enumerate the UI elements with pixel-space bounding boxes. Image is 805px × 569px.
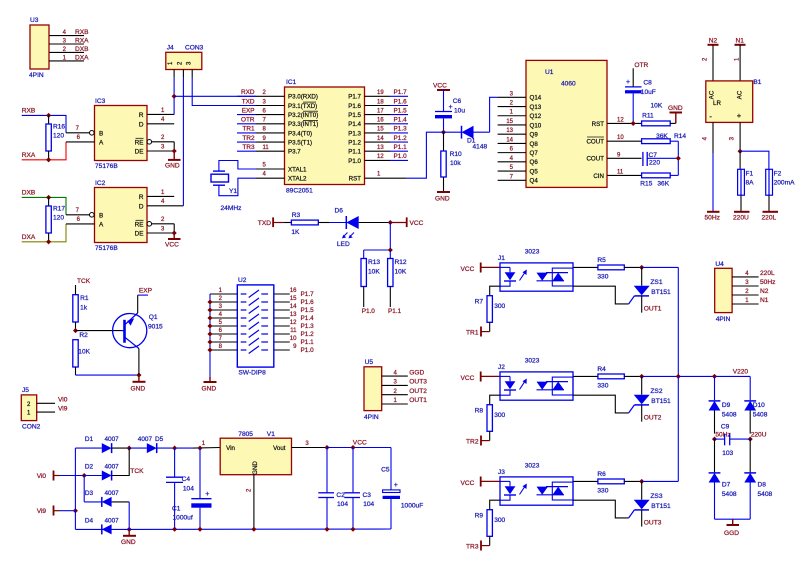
svg-text:50Hz: 50Hz (760, 279, 775, 286)
svg-text:17: 17 (377, 108, 384, 114)
junction V220/left rail (712, 374, 717, 379)
svg-text:3023: 3023 (525, 358, 540, 365)
wire IC3 RE-DE to ground (173, 142, 175, 151)
port TCK (76, 278, 91, 295)
wire DXA (22, 224, 66, 242)
svg-text:D1: D1 (85, 436, 94, 443)
svg-text:R9: R9 (475, 513, 484, 520)
svg-text:4PIN: 4PIN (364, 414, 379, 421)
svg-text:P3.7: P3.7 (288, 149, 301, 156)
fuse F1 8A (738, 151, 755, 212)
wire N1 to B1 (739, 45, 741, 81)
svg-text:50Hz: 50Hz (715, 432, 730, 439)
svg-text:Q10: Q10 (530, 122, 542, 129)
svg-text:4PIN: 4PIN (716, 316, 731, 323)
wire D2 out to D1 junction (112, 448, 130, 475)
svg-text:Q13: Q13 (530, 104, 542, 111)
svg-text:C9: C9 (721, 424, 730, 431)
junction U2 bus pin 3 (207, 307, 212, 312)
wire bridge bottom (715, 518, 751, 520)
svg-text:J3: J3 (498, 469, 505, 476)
svg-text:CON2: CON2 (22, 424, 41, 431)
wire J4 pin1 to IC3 R (173, 78, 175, 115)
svg-text:P3.3(INT1): P3.3(INT1) (288, 121, 318, 128)
svg-text:R12: R12 (395, 259, 407, 266)
svg-text:D5: D5 (155, 436, 164, 443)
svg-text:U5: U5 (365, 359, 374, 366)
svg-text:+: + (449, 104, 453, 111)
svg-text:DE: DE (135, 231, 144, 238)
svg-text:DE: DE (135, 149, 144, 156)
diode D5 4007 (129, 436, 174, 453)
junction ground rail (350, 527, 355, 532)
wire DXB (22, 197, 66, 214)
wire gate ZS2 (573, 395, 629, 413)
pin 6 P3.2(INT0) of IC1 (237, 107, 318, 119)
wire RXA (22, 142, 66, 160)
svg-text:103: 103 (722, 450, 733, 457)
svg-text:D: D (139, 203, 144, 210)
resistor R17 (46, 197, 66, 241)
wire XTAL1 to crystal (219, 161, 256, 172)
svg-text:GND: GND (202, 386, 217, 393)
capacitor C9 103 (715, 424, 751, 458)
capacitor C3 104 (344, 448, 374, 530)
svg-text:Y1: Y1 (229, 188, 237, 195)
svg-text:OUT1: OUT1 (409, 397, 427, 404)
resistor R14 36K (642, 133, 687, 144)
svg-text:ZS3: ZS3 (650, 493, 662, 500)
svg-text:R7: R7 (475, 299, 484, 306)
junction RXA-R16 (46, 157, 51, 162)
connector J4 CON3 (166, 45, 204, 78)
pin 3 of U2 with switch (210, 304, 268, 313)
svg-text:Q6: Q6 (530, 159, 539, 166)
diode D3 4007 (84, 490, 129, 507)
diode D1 4148 (444, 126, 490, 151)
svg-text:BT151: BT151 (651, 289, 671, 296)
svg-text:10: 10 (290, 336, 297, 342)
svg-text:OTR: OTR (241, 117, 255, 124)
svg-text:10K: 10K (395, 269, 407, 276)
LED D6 (330, 208, 391, 248)
svg-text:220U: 220U (751, 432, 767, 439)
pin 9 P3.5(T1) of IC1 (237, 135, 312, 147)
svg-text:8A: 8A (746, 180, 755, 187)
svg-text:D6: D6 (335, 208, 344, 215)
pin 14 Q8 of U1 (498, 137, 539, 147)
svg-text:15: 15 (377, 127, 384, 133)
svg-text:10K: 10K (78, 349, 90, 356)
svg-text:J2: J2 (498, 364, 505, 371)
svg-text:P1.0: P1.0 (362, 308, 376, 315)
svg-text:VCC: VCC (461, 266, 475, 273)
svg-text:TR1: TR1 (242, 126, 255, 133)
svg-text:R15: R15 (640, 181, 652, 188)
svg-text:P1.5: P1.5 (301, 307, 315, 314)
resistor R10 10k (441, 132, 462, 191)
svg-text:AC: AC (709, 90, 716, 99)
svg-text:R1: R1 (80, 295, 89, 302)
wire V220 row (678, 375, 750, 377)
svg-text:DXB: DXB (22, 190, 36, 197)
svg-text:5408: 5408 (722, 491, 737, 498)
svg-text:P1.6: P1.6 (394, 98, 408, 105)
svg-text:Q7: Q7 (530, 150, 539, 157)
junction emitter/ground (136, 373, 141, 378)
svg-text:R8: R8 (475, 408, 484, 415)
wire base (76, 330, 122, 332)
pin 11 of U2 (274, 328, 314, 338)
svg-text:C5: C5 (381, 467, 390, 474)
wire RXB (22, 115, 66, 132)
ground GND (Q1) (131, 375, 146, 392)
svg-text:P1.7: P1.7 (348, 94, 361, 101)
svg-text:A: A (99, 139, 104, 146)
pin 19 P1.7 of IC1 (348, 89, 408, 101)
svg-text:OUT3: OUT3 (644, 520, 662, 527)
resistor R13 10K (361, 250, 380, 307)
pin 15 P1.3 of IC1 (348, 126, 408, 138)
junction ground rail (127, 527, 132, 532)
svg-text:TR2: TR2 (466, 439, 479, 446)
resistor R6 330 (573, 471, 642, 495)
port Vi9 (37, 506, 76, 516)
svg-text:V1: V1 (267, 431, 275, 438)
junction bus/V220 row (676, 374, 681, 379)
svg-text:DXA: DXA (22, 234, 36, 241)
resistor R16 (46, 115, 66, 159)
svg-text:4007: 4007 (104, 464, 119, 471)
ground GGD (724, 519, 739, 537)
svg-text:Vin: Vin (226, 445, 235, 452)
svg-text:Q8: Q8 (530, 141, 539, 148)
junction D1/D5/TCK (127, 446, 132, 451)
resistor R7 300 (475, 286, 506, 331)
ground GND (R11) (668, 105, 683, 123)
junction VCC/RST/D1/R10 (441, 130, 446, 135)
capacitor C2 104 (318, 448, 348, 530)
pin 6 of U2 with switch (210, 328, 268, 337)
svg-text:BT151: BT151 (651, 503, 671, 510)
pin 5 of U2 with switch (210, 320, 268, 329)
pin 17 P1.5 of IC1 (348, 107, 408, 119)
svg-text:P1.6: P1.6 (348, 103, 361, 110)
svg-text:V220: V220 (733, 369, 749, 376)
svg-text:TCK: TCK (130, 468, 144, 475)
svg-text:TCK: TCK (77, 278, 91, 285)
junction U2 bus pin 4 (207, 315, 212, 320)
pin 14 P1.2 of IC1 (348, 135, 408, 147)
wire B1 minus to 50Hz (703, 122, 714, 211)
resistor R2 10K (73, 340, 91, 375)
svg-text:P1.1: P1.1 (394, 144, 408, 151)
svg-text:+: + (737, 111, 742, 120)
port VCC (row J1) (461, 263, 501, 274)
svg-text:LR: LR (713, 100, 721, 107)
power VCC (LED) (390, 217, 423, 227)
wire gate ZS3 (573, 500, 629, 518)
svg-text:Q9: Q9 (530, 132, 539, 139)
pin 7 of U2 with switch (210, 336, 268, 345)
svg-text:P1.1: P1.1 (348, 149, 361, 156)
svg-text:P1.5: P1.5 (394, 107, 408, 114)
wire emitter to ground rail (76, 374, 139, 376)
svg-text:R5: R5 (597, 257, 606, 264)
svg-text:12: 12 (377, 154, 384, 160)
wire pullup feed (389, 223, 391, 251)
wire D3 to ground rail (128, 502, 130, 530)
port TR2 (466, 436, 490, 446)
svg-text:D4: D4 (85, 518, 94, 525)
svg-text:330: 330 (597, 488, 608, 495)
svg-text:14: 14 (377, 136, 384, 142)
svg-text:B: B (99, 130, 103, 137)
diode D2 4007 (84, 464, 119, 481)
wire N2 to B1 (712, 45, 714, 81)
svg-text:C2: C2 (336, 492, 345, 499)
svg-text:13: 13 (506, 128, 513, 134)
svg-text:9015: 9015 (148, 324, 163, 331)
svg-text:GGD: GGD (409, 369, 424, 376)
svg-text:R10: R10 (450, 151, 462, 158)
svg-text:4148: 4148 (473, 144, 488, 151)
diode D9 5408 (709, 376, 737, 433)
bridge rectifier B1 LR (706, 79, 762, 122)
svg-text:AC: AC (737, 90, 744, 99)
svg-text:Vi0: Vi0 (58, 397, 68, 404)
pin 12 P1.0 of IC1 (348, 153, 408, 165)
capacitor C5 1000uF (381, 448, 423, 530)
junction fuses (738, 149, 743, 154)
junction C7 right (676, 156, 681, 161)
svg-text:A: A (99, 221, 104, 228)
svg-text:330: 330 (597, 383, 608, 390)
junction R4 out (639, 374, 644, 379)
svg-text:D9: D9 (722, 402, 731, 409)
diode D4 4007 (85, 518, 119, 535)
svg-text:R16: R16 (53, 124, 65, 131)
svg-text:C8: C8 (643, 79, 652, 86)
svg-text:R4: R4 (597, 366, 606, 373)
svg-text:50Hz: 50Hz (705, 215, 720, 222)
svg-text:BT151: BT151 (651, 398, 671, 405)
svg-text:D2: D2 (85, 464, 94, 471)
pin 16 P1.4 of IC1 (348, 117, 408, 129)
wire RST to junction (407, 132, 444, 178)
svg-text:15: 15 (506, 119, 513, 125)
junction RST/C8/R11 (631, 121, 636, 126)
svg-text:OTR: OTR (634, 62, 648, 69)
resistor R8 300 (475, 395, 506, 440)
svg-text:P1.3: P1.3 (394, 126, 408, 133)
svg-text:R: R (139, 112, 144, 119)
svg-text:120: 120 (53, 133, 64, 140)
svg-text:GND: GND (435, 196, 450, 203)
svg-text:Q5: Q5 (530, 168, 539, 175)
pin 7 Q4 of U1 (498, 174, 539, 184)
svg-text:P1.1: P1.1 (301, 339, 315, 346)
pin 9 COUT of U1 (586, 152, 641, 162)
junction U2 bus pin 6 (207, 331, 212, 336)
junction IC2 DE (172, 230, 177, 235)
svg-text:300: 300 (494, 303, 505, 310)
svg-text:OUT2: OUT2 (644, 415, 662, 422)
svg-text:D8: D8 (758, 482, 767, 489)
pin 11 P3.7 of IC1 (237, 144, 301, 156)
svg-text:P1.4: P1.4 (394, 117, 408, 124)
pin 2 of U2 with switch (210, 296, 268, 305)
svg-text:COUT: COUT (586, 156, 604, 163)
svg-text:11: 11 (617, 169, 624, 175)
optocoupler J1 3023 (498, 249, 573, 292)
pin 15 of U2 (274, 296, 314, 306)
svg-text:R11: R11 (642, 113, 654, 120)
pin 4 XTAL2 of IC1 (256, 172, 307, 183)
svg-text:U4: U4 (715, 261, 724, 268)
svg-text:RST: RST (592, 121, 605, 128)
svg-text:P1.3: P1.3 (348, 130, 361, 137)
resistor R1 1k (73, 295, 89, 331)
junction R6 out (639, 479, 644, 484)
svg-text:1k: 1k (80, 305, 88, 312)
pin 10 COUT of U1 (586, 135, 641, 145)
svg-text:11: 11 (290, 328, 297, 334)
svg-text:RXB: RXB (22, 108, 36, 115)
svg-text:P1.5: P1.5 (348, 112, 361, 119)
pin 13 P1.1 of IC1 (348, 144, 408, 156)
pin 14 of U2 (274, 304, 314, 314)
pin 10 of U2 (274, 336, 314, 346)
svg-text:P1.4: P1.4 (348, 121, 361, 128)
svg-text:24MHz: 24MHz (221, 205, 242, 212)
svg-text:ZS1: ZS1 (650, 279, 662, 286)
junction ground rail (197, 527, 202, 532)
svg-text:P1.4: P1.4 (301, 315, 315, 322)
pin 15 Q10 of U1 (498, 119, 542, 129)
svg-text:XTAL2: XTAL2 (288, 176, 307, 183)
connector J5 CON2 (21, 387, 67, 431)
svg-text:10K: 10K (368, 269, 380, 276)
power VCC (IC2) (165, 233, 181, 249)
junction base divider (73, 328, 78, 333)
svg-text:4007: 4007 (104, 490, 119, 497)
svg-text:4060: 4060 (561, 81, 576, 88)
port VCC (row J2) (461, 372, 501, 383)
svg-text:VCC: VCC (353, 440, 367, 447)
svg-text:U1: U1 (545, 69, 554, 76)
connector U5 4PIN (364, 359, 427, 421)
svg-text:7805: 7805 (238, 431, 253, 438)
svg-text:N1: N1 (736, 37, 745, 44)
svg-text:P1.0: P1.0 (394, 153, 408, 160)
ground GND (IC3) (165, 151, 181, 170)
svg-text:F2: F2 (774, 171, 782, 178)
pin 8 of U2 with switch (210, 344, 268, 353)
svg-text:RXD: RXD (241, 89, 255, 96)
pin 5 Q5 of U1 (498, 165, 539, 175)
svg-text:GND: GND (121, 539, 136, 546)
svg-text:P3.2(INT0): P3.2(INT0) (288, 112, 318, 119)
transistor Q1 9015 (113, 295, 163, 375)
regulator V1 7805 (202, 431, 327, 475)
resistor R5 330 (573, 257, 642, 281)
port VCC (row J3) (461, 477, 501, 488)
svg-text:RST: RST (349, 176, 362, 183)
svg-text:R3: R3 (292, 212, 301, 219)
svg-text:TR3: TR3 (466, 544, 479, 551)
junction U2 bus pin 2 (207, 299, 212, 304)
pin 12 RST of U1 (592, 117, 642, 127)
junction pullups (388, 247, 393, 252)
pin 18 P1.6 of IC1 (348, 98, 408, 110)
wire R14-C7-R15 feedback (677, 141, 679, 175)
svg-text:U3: U3 (30, 17, 39, 24)
svg-text:R13: R13 (368, 259, 380, 266)
svg-text:D7: D7 (722, 482, 731, 489)
wire XTAL2 to crystal (219, 178, 256, 196)
wire J4 pin3 / TXD net (192, 78, 256, 106)
svg-text:GGD: GGD (724, 530, 739, 537)
svg-text:19: 19 (377, 90, 384, 96)
port 220U (733, 212, 750, 222)
pin 1 Q12 of U1 (498, 110, 542, 120)
svg-text:N2: N2 (760, 288, 769, 295)
svg-text:R14: R14 (674, 133, 686, 140)
svg-text:1K: 1K (291, 229, 300, 236)
junction ground rail (172, 527, 177, 532)
svg-text:P3.0(RXD): P3.0(RXD) (288, 94, 318, 101)
svg-text:75176B: 75176B (95, 163, 118, 170)
port TR3 (466, 541, 490, 551)
wire J4 pin2 to IC2 D (182, 78, 184, 206)
port 220L (762, 212, 779, 222)
svg-text:CIN: CIN (593, 173, 604, 180)
wire R4 to vertical (642, 375, 679, 377)
svg-text:P1.6: P1.6 (301, 299, 315, 306)
junction Vi0/D2 (82, 473, 87, 478)
svg-text:P1.2: P1.2 (301, 331, 315, 338)
pin 1 RST of IC1 (349, 172, 407, 183)
junction U2 bus pin 5 (207, 323, 212, 328)
svg-text:36K: 36K (656, 133, 668, 140)
svg-text:TXD: TXD (258, 220, 271, 227)
svg-text:4007: 4007 (104, 518, 119, 525)
svg-text:IC1: IC1 (286, 79, 297, 86)
pin 8 P3.4(T0) of IC1 (237, 126, 312, 138)
svg-text:TR3: TR3 (242, 144, 255, 151)
capacitor C8 10uF (625, 68, 656, 123)
svg-text:89C2051: 89C2051 (286, 188, 313, 195)
resistor R3 1K (283, 212, 329, 236)
svg-text:10: 10 (617, 135, 624, 141)
wire gate ZS1 (573, 286, 629, 304)
svg-text:OUT3: OUT3 (409, 379, 427, 386)
svg-text:C4: C4 (182, 476, 191, 483)
diode D8 5408 (744, 439, 772, 519)
fuse F2 200mA (740, 151, 795, 212)
ground GND (bridge) (121, 529, 136, 546)
pin 4 Q6 of U1 (498, 156, 539, 166)
svg-text:F1: F1 (746, 171, 754, 178)
svg-text:P1.7: P1.7 (394, 89, 408, 96)
svg-text:16: 16 (377, 118, 384, 124)
capacitor C6 10u (435, 90, 465, 132)
pin 3 P3.1(TXD) of IC1 (237, 98, 317, 110)
resistor R12 10K (388, 250, 407, 307)
svg-text:5408: 5408 (722, 412, 737, 419)
svg-text:GND: GND (165, 163, 180, 170)
